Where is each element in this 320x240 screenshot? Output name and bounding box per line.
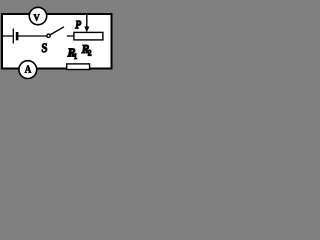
background <box>0 0 121 100</box>
circuit outline wire loop <box>2 14 112 69</box>
battery short thick plate <box>16 32 19 40</box>
switch S pivot <box>47 34 50 37</box>
ammeter letter A <box>25 66 31 73</box>
label R1 subscript 1 <box>74 53 77 58</box>
wire: switch to rheostat R2 <box>67 35 74 37</box>
rheostat slider arrow stem <box>86 15 88 28</box>
battery long plate <box>12 29 14 44</box>
resistor R1 body <box>67 64 90 70</box>
rheostat R2 body <box>74 32 103 40</box>
label S <box>42 44 47 53</box>
label R1 letter R <box>67 48 74 56</box>
voltmeter V circle <box>29 7 46 24</box>
wire: left border to battery <box>2 35 13 37</box>
label R2 letter R <box>82 45 89 53</box>
label R2 subscript 2 <box>88 50 91 56</box>
ammeter A circle <box>19 61 37 79</box>
switch S blade <box>50 27 64 35</box>
label P <box>75 21 81 29</box>
voltmeter letter V <box>34 14 40 20</box>
rheostat slider arrowhead <box>84 27 89 33</box>
wire: battery to switch <box>18 35 46 37</box>
